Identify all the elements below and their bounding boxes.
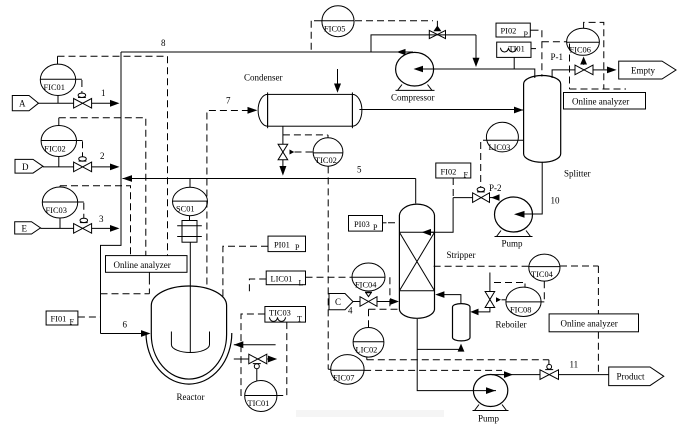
tag E [15, 222, 41, 234]
pump product [473, 375, 509, 411]
svg-text:1: 1 [101, 88, 106, 98]
wire signal FIC01 setpoint dashed [58, 56, 168, 255]
tag Empty [619, 61, 676, 79]
box PI01 [268, 236, 306, 252]
wire signal FIC03 to valve 3 [83, 203, 85, 218]
svg-text:P: P [373, 223, 378, 232]
svg-text:TIC04: TIC04 [531, 270, 554, 279]
wire signal PI01 to reactor dashed [223, 246, 268, 299]
wire signal PI02 TI01 FIC06 dashed bus [542, 30, 567, 76]
vessel reactor [146, 286, 232, 384]
svg-text:T: T [297, 315, 302, 324]
svg-text:Pump: Pump [478, 414, 500, 424]
svg-text:5: 5 [357, 165, 362, 175]
reactor agitator shaft [171, 242, 209, 353]
svg-text:3: 3 [99, 214, 104, 224]
svg-text:FIC06: FIC06 [570, 45, 591, 54]
instrument TIC04 [529, 254, 560, 281]
svg-text:SC01: SC01 [176, 205, 195, 214]
wire signal TIC03 to TIC01 dashed [277, 322, 287, 395]
wire purge line stream 9 [552, 67, 617, 79]
svg-text:PI03: PI03 [354, 220, 370, 229]
box online analyzer top right [564, 93, 646, 110]
wire signal TIC02 to drain valve dashed [295, 151, 314, 153]
wire stream 3 [41, 225, 120, 232]
wire signal LIC03 to P-2 valve dashed [480, 142, 482, 187]
svg-text:P-2: P-2 [489, 183, 502, 193]
svg-text:8: 8 [161, 38, 166, 48]
vessel condenser [258, 92, 362, 128]
wire reactor cooling return stub [234, 341, 276, 348]
wire signal FIC07 dashed [364, 369, 502, 371]
wire compressor suction [414, 66, 535, 78]
wire reboiler circulation [417, 344, 464, 352]
wire signal TIC04 to analyzer dashed [560, 266, 598, 375]
instrument LIC03 [483, 122, 524, 152]
wire signal FIC05 measurement dashed [310, 21, 312, 52]
svg-text:TIC01: TIC01 [248, 399, 270, 408]
svg-text:10: 10 [551, 196, 561, 206]
wire signal FIC05 to bypass valve dashed [355, 20, 433, 22]
wire signal TIC03 left dashed [241, 314, 265, 396]
wire reboiler vapor return [435, 291, 461, 303]
wire stream 6 reactor feed [101, 330, 151, 337]
wire pump discharge to stripper feed [422, 194, 500, 235]
valve stream 4 [360, 292, 377, 306]
wire signal FIC02 setpoint dashed [59, 118, 146, 256]
wire signal LIC01 to reactor dashed [249, 279, 266, 295]
instrument FIC05 [314, 6, 354, 37]
wire signal FIC01 to valve 1 [81, 80, 83, 93]
vessel stripper column [399, 204, 434, 318]
svg-text:Reboiler: Reboiler [496, 320, 527, 330]
svg-text:FIC02: FIC02 [44, 144, 65, 153]
svg-text:Online analyzer: Online analyzer [114, 260, 171, 270]
box LIC01 [266, 271, 305, 288]
svg-text:6: 6 [123, 320, 128, 330]
wire signal FIC02 to valve 2 [82, 141, 84, 156]
svg-text:LIC01: LIC01 [271, 275, 293, 284]
valve compressor bypass [429, 21, 445, 39]
svg-text:PI01: PI01 [274, 240, 290, 249]
wire signal FIC03 setpoint dashed [60, 186, 131, 256]
wire stream 2 [43, 164, 120, 171]
wire condenser outlet to splitter [359, 107, 523, 114]
wire signal LIC01 to FIC04 dashed [306, 276, 353, 278]
wire stream 1 [39, 100, 120, 107]
svg-text:PI02: PI02 [501, 27, 517, 36]
wire splitter bottoms to pump [514, 162, 542, 218]
svg-text:Pump: Pump [502, 239, 524, 249]
wire reboiler steam line [470, 273, 490, 316]
tag A [12, 96, 38, 111]
svg-text:4: 4 [348, 306, 353, 316]
svg-text:LIC02: LIC02 [356, 345, 378, 354]
svg-text:L: L [299, 279, 304, 288]
wire stream 7 reactor to condenser dashed [207, 107, 258, 285]
svg-text:FIC01: FIC01 [44, 83, 65, 92]
tag D [15, 159, 43, 173]
valve reboiler steam [485, 292, 501, 308]
watermark [296, 410, 444, 417]
svg-text:TIC03: TIC03 [269, 309, 291, 318]
wire signal FI01 dashed [78, 316, 101, 318]
svg-text:FI02: FI02 [441, 167, 457, 176]
wire condenser cooling inlet arrow [334, 69, 341, 93]
vessel reboiler [453, 304, 471, 341]
pump recycle [495, 197, 533, 237]
wire main feed header vertical line [101, 52, 122, 334]
wire signal LIC02 to product valve dashed [367, 357, 549, 364]
wire stream 5 from stripper overhead [123, 175, 416, 203]
instrument TIC01 [245, 381, 277, 412]
svg-text:Online analyzer: Online analyzer [561, 319, 618, 329]
valve purge P-1 [575, 57, 593, 75]
vessel splitter [524, 75, 561, 162]
wire condenser drain [279, 126, 286, 175]
box PI02 [496, 23, 539, 39]
wire reactor cooling supply stub [234, 356, 277, 363]
wire signal TIC04 to stripper dashed [434, 265, 529, 267]
box FI01 [46, 311, 78, 327]
svg-text:P-1: P-1 [551, 52, 564, 62]
box TI01 [497, 42, 536, 68]
instrument FIC04 [352, 263, 385, 291]
instrument TIC02 [313, 138, 343, 166]
wire signal FIC08 to steam valve dashed [494, 283, 525, 300]
valve product [540, 364, 559, 379]
svg-text:11: 11 [570, 360, 579, 370]
instrument FIC03 [42, 186, 84, 229]
wire signal FIC06 dashed box to analyzer [570, 22, 627, 89]
valve condenser drain [278, 144, 294, 159]
svg-text:E: E [22, 223, 28, 233]
instrument FIC06 [567, 28, 600, 55]
svg-text:F: F [464, 171, 469, 180]
box PI03 [349, 216, 400, 233]
svg-text:LIC03: LIC03 [489, 143, 511, 152]
svg-text:Reactor: Reactor [177, 392, 205, 402]
svg-text:FI01: FI01 [51, 314, 67, 323]
valve stream 1 [74, 93, 92, 108]
wire signal TIC02 to FIC07 dashed bus [328, 166, 331, 369]
valve P-2 [473, 187, 490, 202]
svg-text:FIC04: FIC04 [355, 281, 377, 290]
tag C [329, 294, 353, 310]
valve reactor cooling water [249, 354, 267, 381]
valve stream 2 [74, 157, 92, 172]
instrument FIC07 [331, 355, 364, 385]
compressor [396, 52, 435, 90]
svg-text:FIC07: FIC07 [333, 373, 354, 382]
svg-text:Condenser: Condenser [244, 73, 283, 83]
reactor agitator motor coupling [177, 216, 202, 243]
instrument FIC01 [40, 56, 82, 103]
wire compressor bypass line [371, 35, 480, 67]
box FI02 [436, 163, 471, 180]
box online analyzer bottom right [549, 314, 638, 332]
instrument FIC02 [41, 118, 82, 167]
svg-text:Splitter: Splitter [564, 169, 591, 179]
svg-text:7: 7 [226, 96, 231, 106]
svg-text:A: A [19, 99, 26, 109]
svg-text:2: 2 [100, 151, 105, 161]
svg-text:D: D [22, 162, 29, 172]
wire stripper bottoms to pump [417, 319, 496, 394]
box online analyzer left [106, 256, 188, 273]
svg-text:TI01: TI01 [509, 45, 525, 54]
instrument LIC02 [353, 328, 384, 358]
svg-text:Empty: Empty [631, 66, 655, 76]
wire signal FI02 dashed [452, 178, 454, 198]
valve stream 3 [74, 218, 92, 233]
svg-text:F: F [70, 318, 75, 327]
wire product line stream 11 [492, 371, 609, 378]
svg-text:Online analyzer: Online analyzer [572, 96, 629, 106]
wire signal TIC02 measurement dashed [283, 135, 328, 138]
svg-text:FIC05: FIC05 [324, 25, 345, 34]
instrument SC01 [173, 179, 208, 216]
svg-text:Compressor: Compressor [391, 93, 435, 103]
wire signal FIC04 LIC02 dashed [369, 277, 399, 327]
svg-text:Product: Product [617, 372, 645, 382]
wire signal TIC04 to FIC08 dashed [543, 281, 545, 302]
svg-text:P: P [295, 243, 300, 252]
box TIC03 [265, 307, 306, 324]
svg-text:FIC03: FIC03 [46, 206, 67, 215]
svg-text:TIC02: TIC02 [315, 156, 337, 165]
svg-text:P: P [524, 30, 529, 39]
wire signal analyzer to feed line [101, 272, 150, 294]
svg-text:C: C [335, 297, 341, 307]
svg-text:FIC08: FIC08 [510, 305, 531, 314]
tag Product [609, 367, 664, 386]
wire stream 4 [353, 298, 399, 305]
instrument FIC08 [506, 287, 544, 316]
svg-text:Stripper: Stripper [447, 250, 476, 260]
wire stream 8 recycle line [121, 49, 413, 55]
